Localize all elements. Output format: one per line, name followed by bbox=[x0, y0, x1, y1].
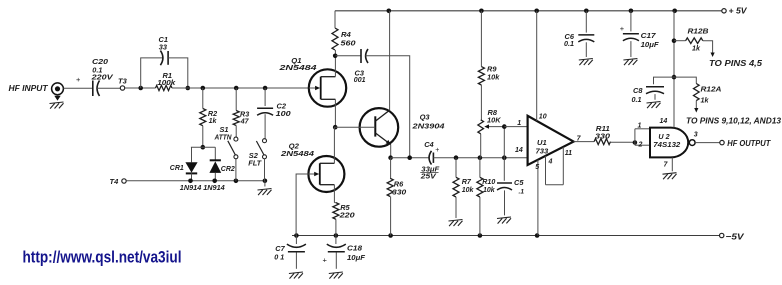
wire U1 pin11 bbox=[562, 147, 564, 185]
wire CR2 anode lead bbox=[214, 173, 216, 181]
svg-text:10k: 10k bbox=[487, 72, 500, 81]
wire U1 pin4 bbox=[545, 156, 547, 185]
label site url bbox=[23, 247, 182, 266]
label R2 bbox=[208, 109, 217, 118]
svg-text:14: 14 bbox=[660, 118, 668, 125]
label R4 bbox=[341, 30, 352, 39]
wire R10 bottom lead bbox=[479, 197, 481, 236]
connector J1 HF input bbox=[52, 83, 64, 95]
wire C4 to U1 pin14 bbox=[433, 157, 527, 159]
gate U2 74S132 bbox=[650, 128, 688, 158]
node C5 tap bbox=[502, 155, 507, 160]
node CR2 bottom bbox=[212, 179, 217, 184]
wire C3 right to C4 node bbox=[366, 56, 410, 158]
label C5 value bbox=[519, 188, 525, 195]
capacitor C7 bbox=[287, 244, 306, 252]
node R1 right junction bbox=[186, 86, 191, 91]
svg-text:733: 733 bbox=[536, 147, 549, 156]
label C18 value bbox=[347, 253, 365, 262]
node bottom rail junction bbox=[535, 233, 540, 238]
label C6 bbox=[565, 32, 575, 41]
label C8 bbox=[633, 86, 643, 95]
capacitor C18 bbox=[327, 244, 346, 252]
label CR1 bbox=[170, 163, 184, 172]
svg-text:0.1: 0.1 bbox=[632, 95, 642, 104]
label S1 bbox=[220, 125, 229, 134]
wire C7 bottom lead bbox=[295, 252, 297, 268]
resistor R9 bbox=[478, 67, 484, 85]
svg-text:HF OUTPUT: HF OUTPUT bbox=[727, 139, 771, 148]
ground C18 bbox=[329, 272, 343, 279]
label Q2 type bbox=[280, 149, 315, 158]
node S2 ground corner bbox=[263, 179, 268, 184]
wire C8 branch bbox=[654, 77, 675, 84]
svg-text:C5: C5 bbox=[514, 178, 524, 187]
svg-text:10k: 10k bbox=[462, 187, 475, 194]
label U1 type bbox=[536, 147, 549, 156]
svg-text:0 1: 0 1 bbox=[274, 253, 284, 262]
ground R7 bbox=[449, 220, 463, 227]
wire R8 bottom lead bbox=[480, 134, 482, 158]
node top rail junction bbox=[672, 9, 677, 14]
arrow to pins 9 10 12 13 bbox=[694, 108, 698, 113]
resistor R12B bbox=[686, 38, 703, 44]
svg-text:001: 001 bbox=[354, 77, 366, 84]
label R11 bbox=[596, 124, 610, 133]
svg-text:C18: C18 bbox=[347, 244, 363, 253]
node C3 bottom junction bbox=[407, 155, 412, 160]
resistor R3 bbox=[233, 111, 239, 126]
label TO PINS 9 10 12 AND13 bbox=[686, 117, 782, 126]
svg-text:74S132: 74S132 bbox=[653, 142, 680, 149]
wire C2 to S2 bbox=[264, 114, 266, 139]
node R8-R10 tap bbox=[478, 155, 483, 160]
label C4 value 25V bbox=[420, 172, 438, 181]
label R1 bbox=[163, 71, 172, 80]
svg-text:FLT: FLT bbox=[248, 159, 262, 168]
wire U1 pin10 bbox=[536, 11, 538, 121]
label R9 bbox=[487, 65, 497, 74]
wire C2 top lead bbox=[264, 88, 266, 106]
node input line at C1 branch bbox=[138, 86, 143, 91]
svg-text:+: + bbox=[323, 255, 328, 264]
capacitor C6 bbox=[578, 35, 594, 42]
svg-text:10μF: 10μF bbox=[347, 253, 365, 262]
capacitor C1 bbox=[160, 51, 168, 66]
wire R12A lead bbox=[674, 77, 696, 83]
node bottom rail junction bbox=[294, 233, 299, 238]
node top rail junction bbox=[387, 9, 392, 14]
switch S1 bbox=[228, 137, 238, 159]
node U2 input junction bbox=[633, 140, 638, 145]
node R12B branch bbox=[672, 38, 677, 43]
label U1 pin7 bbox=[577, 135, 582, 142]
wire CR1 anode lead bbox=[191, 147, 193, 162]
label U1 pin5 bbox=[535, 164, 539, 171]
capacitor C8 bbox=[646, 87, 664, 94]
wire C17 bottom lead bbox=[630, 41, 632, 57]
bubble U2 output bbox=[689, 140, 695, 146]
label R8 bbox=[488, 108, 498, 117]
svg-text:4: 4 bbox=[548, 159, 553, 166]
capacitor C5 bbox=[497, 183, 512, 190]
wire common line to ground bbox=[264, 181, 266, 187]
svg-text:2: 2 bbox=[638, 142, 643, 149]
svg-text:10k: 10k bbox=[483, 187, 496, 194]
label R3 bbox=[240, 110, 249, 119]
wire U2 pin1 stub bbox=[635, 128, 650, 130]
resistor R6 bbox=[387, 178, 393, 196]
resistor R8 pot bbox=[478, 120, 484, 134]
svg-text:560: 560 bbox=[341, 38, 357, 47]
label R3 value bbox=[240, 118, 250, 125]
svg-text:C8: C8 bbox=[633, 86, 643, 95]
node CR1 bottom bbox=[188, 179, 193, 184]
ground input connector bbox=[50, 102, 64, 109]
ground C7 bbox=[289, 272, 303, 279]
capacitor C20 bbox=[93, 81, 100, 97]
svg-text:HF INPUT: HF INPUT bbox=[9, 84, 49, 93]
label C2 bbox=[277, 101, 287, 110]
terminal T4 bbox=[122, 179, 126, 183]
label U1 pin4 bbox=[548, 159, 553, 166]
wire U2 pin2 stub bbox=[635, 144, 650, 146]
node top rail junction bbox=[534, 9, 539, 14]
wire emitter to C4 bbox=[391, 157, 429, 159]
label C3 bbox=[355, 69, 365, 78]
wire R2 top lead bbox=[202, 88, 204, 109]
node top rail junction bbox=[479, 9, 484, 14]
capacitor C17 bbox=[623, 34, 639, 41]
svg-text:5: 5 bbox=[535, 164, 539, 171]
wire C6 bottom lead bbox=[585, 42, 587, 57]
node top rail junction bbox=[584, 9, 589, 14]
resistor R5 bbox=[333, 203, 339, 220]
label R10 value bbox=[483, 187, 496, 194]
node R2 tap bbox=[201, 86, 206, 91]
label C8 value bbox=[632, 95, 642, 104]
wire R11 to U2 bbox=[611, 141, 635, 143]
label U2 pin2 bbox=[638, 142, 643, 149]
label U1 pin10 bbox=[539, 114, 547, 121]
svg-text:C7: C7 bbox=[275, 244, 285, 253]
ground C17 bbox=[623, 59, 637, 66]
wire C6 top lead bbox=[585, 11, 587, 33]
transistor Q3 2N3904 bbox=[335, 108, 398, 147]
diode CR2 bbox=[209, 160, 221, 173]
wire C18 bottom lead bbox=[335, 252, 337, 268]
terminal HF output bbox=[720, 140, 724, 144]
label U2 pin1 bbox=[638, 122, 642, 129]
wire R9 to R8 bbox=[480, 85, 482, 120]
wire S1 bottom lead bbox=[235, 159, 237, 181]
svg-text:330: 330 bbox=[392, 188, 407, 197]
label T4 bbox=[110, 177, 120, 186]
wire U1 pin7 output bbox=[574, 141, 595, 143]
label 1N914 left bbox=[180, 183, 202, 192]
capacitor C2 bbox=[257, 108, 273, 115]
wire C1 branch left bbox=[141, 58, 164, 88]
label R4 value bbox=[341, 38, 357, 47]
label +5V bbox=[729, 6, 748, 16]
svg-text:0.1: 0.1 bbox=[564, 39, 574, 48]
svg-text:Q3: Q3 bbox=[420, 113, 431, 122]
node bottom rail junction bbox=[478, 233, 483, 238]
label R1 value bbox=[157, 78, 176, 87]
node wiper junction bbox=[502, 124, 507, 129]
wire U2 output bbox=[695, 142, 720, 144]
capacitor C4 bbox=[429, 151, 433, 165]
label R12A value bbox=[701, 95, 710, 104]
diode CR1 bbox=[185, 162, 197, 173]
svg-text:+ 5V: + 5V bbox=[729, 6, 748, 16]
node C3 tap bbox=[333, 54, 338, 59]
wire -5V bottom rail bbox=[292, 235, 720, 237]
label C7 value bbox=[274, 253, 284, 262]
wire input to C20 bbox=[63, 87, 92, 89]
label R9 value bbox=[487, 72, 500, 81]
svg-text:C4: C4 bbox=[424, 140, 433, 149]
label R6 bbox=[394, 180, 404, 189]
label R7 value bbox=[462, 187, 475, 194]
label R12B value bbox=[692, 44, 701, 53]
wire R9 top lead bbox=[480, 11, 482, 67]
wire diode top line bbox=[191, 146, 215, 148]
label C7 bbox=[275, 244, 285, 253]
terminal -5V bbox=[720, 233, 724, 237]
wire U2 input tie bbox=[634, 129, 636, 145]
ground C5 bbox=[497, 217, 511, 224]
svg-text:CR2: CR2 bbox=[221, 164, 236, 173]
capacitor C3 bbox=[361, 49, 368, 63]
wire Q2 source to R5 bbox=[334, 185, 336, 203]
label 1N914 right bbox=[203, 183, 225, 192]
label C20 plus bbox=[76, 75, 81, 84]
wire R12B to arrow bbox=[703, 41, 713, 54]
wire T4 common line bbox=[126, 180, 265, 182]
svg-text:3: 3 bbox=[694, 132, 698, 139]
label C17 plus bbox=[620, 24, 625, 33]
svg-text:U 2: U 2 bbox=[658, 132, 669, 141]
ground U2 pin7 bbox=[663, 173, 677, 180]
wire R3 top lead bbox=[235, 88, 237, 111]
wire CR1 cathode lead bbox=[191, 173, 193, 180]
wire C8 bottom lead bbox=[654, 94, 656, 100]
svg-text:R12A: R12A bbox=[701, 85, 722, 94]
svg-text:.1: .1 bbox=[519, 188, 525, 195]
label C3 value bbox=[354, 77, 366, 84]
node bottom rail junction bbox=[334, 233, 339, 238]
label C4 value underline bbox=[420, 172, 438, 174]
wire R7 bottom lead bbox=[455, 197, 457, 218]
label U1 bbox=[537, 138, 547, 147]
svg-text:1N914: 1N914 bbox=[180, 183, 202, 192]
svg-text:330: 330 bbox=[595, 132, 611, 141]
node Q1 source junction bbox=[333, 125, 338, 130]
wire pin4-pin11 strap bbox=[546, 184, 564, 186]
label C17 bbox=[641, 31, 657, 40]
wire C5 top lead bbox=[503, 127, 505, 181]
wire R10 top lead bbox=[479, 158, 481, 178]
label C4 bbox=[424, 140, 433, 149]
svg-text:10K: 10K bbox=[487, 115, 501, 124]
svg-text:33: 33 bbox=[159, 42, 168, 51]
resistor R2 bbox=[200, 109, 206, 126]
wire U2 pin7 bbox=[671, 157, 673, 171]
wire wiper to U1 pin1 bbox=[504, 126, 527, 128]
terminal +5V bbox=[722, 9, 726, 13]
wire Q1 drain to R4 bbox=[334, 50, 336, 77]
svg-text:ATTN: ATTN bbox=[214, 133, 232, 142]
label R12A bbox=[701, 85, 722, 94]
label -5V bbox=[726, 232, 745, 242]
svg-text:1k: 1k bbox=[692, 44, 701, 53]
label U1 pin14 bbox=[515, 147, 523, 154]
svg-text:2N3904: 2N3904 bbox=[411, 121, 445, 130]
svg-text:TO PINS 4,5: TO PINS 4,5 bbox=[709, 59, 763, 68]
label C1 bbox=[159, 35, 168, 44]
svg-text:T4: T4 bbox=[110, 177, 120, 186]
svg-text:2N5484: 2N5484 bbox=[278, 63, 317, 72]
node R3 tap bbox=[234, 86, 239, 91]
svg-text:25V: 25V bbox=[420, 172, 438, 181]
label C6 value bbox=[564, 39, 574, 48]
label R12B bbox=[688, 26, 710, 35]
label U2 bbox=[658, 132, 669, 141]
resistor R4 bbox=[332, 28, 338, 50]
label R7 bbox=[462, 177, 472, 186]
svg-text:220V: 220V bbox=[90, 72, 114, 81]
wire Q1 source bbox=[334, 99, 336, 127]
resistor R11 bbox=[594, 139, 610, 145]
label C4 plus bbox=[435, 147, 439, 154]
label Q1 bbox=[291, 56, 301, 65]
node S1 bottom bbox=[234, 179, 239, 184]
svg-text:10μF: 10μF bbox=[641, 40, 659, 49]
wire +5V top rail bbox=[335, 10, 722, 12]
label C17 value bbox=[641, 40, 659, 49]
label T3 bbox=[118, 76, 128, 85]
svg-text:100: 100 bbox=[276, 109, 292, 118]
label C18 bbox=[347, 244, 363, 253]
svg-text:11: 11 bbox=[565, 150, 572, 157]
wire C3 left lead bbox=[335, 55, 361, 57]
svg-text:TO PINS 9,10,12, AND13: TO PINS 9,10,12, AND13 bbox=[686, 117, 782, 126]
node R7 tap bbox=[454, 155, 459, 160]
svg-text:1k: 1k bbox=[209, 118, 218, 125]
wire R12A to arrow bbox=[695, 101, 697, 109]
node C2 tap bbox=[263, 86, 268, 91]
switch S2 bbox=[256, 139, 266, 159]
wire R5 bottom lead bbox=[335, 219, 337, 235]
label HF INPUT bbox=[9, 84, 49, 93]
ground C6 bbox=[579, 59, 593, 66]
node C8 branch bbox=[672, 75, 677, 80]
wire main line R1 to Q1 gate bbox=[172, 87, 309, 89]
label R5 bbox=[340, 203, 350, 212]
label U1 pin11 bbox=[565, 150, 572, 157]
svg-text:+: + bbox=[435, 147, 439, 154]
wire T3 to R1 bbox=[125, 87, 156, 89]
svg-text:R12B: R12B bbox=[688, 26, 710, 35]
svg-text:R3: R3 bbox=[240, 110, 249, 119]
svg-text:1k: 1k bbox=[701, 95, 710, 104]
wire R6 top lead bbox=[390, 158, 392, 179]
label C20 bbox=[92, 57, 109, 66]
label S2 bbox=[249, 151, 259, 160]
label S2 FLT bbox=[248, 159, 262, 168]
wire U2 pin14 power bbox=[673, 11, 675, 128]
wire U1 pin5 bbox=[537, 160, 539, 236]
label Q3 type bbox=[411, 121, 445, 130]
svg-text:1: 1 bbox=[517, 120, 521, 127]
label R11 value bbox=[595, 132, 611, 141]
wire C1 branch right bbox=[168, 58, 188, 88]
label R6 value bbox=[392, 188, 407, 197]
wire Q3 collector to rail bbox=[389, 11, 391, 110]
svg-text:47: 47 bbox=[240, 118, 250, 125]
transistor Q2 2N5484 bbox=[308, 156, 344, 192]
wire R12B lead bbox=[674, 40, 686, 42]
label Q1 type bbox=[278, 63, 317, 72]
wire Q2 gate bbox=[296, 174, 309, 236]
label HF OUTPUT bbox=[727, 139, 771, 148]
label Q3 bbox=[420, 113, 431, 122]
svg-text:−5V: −5V bbox=[726, 232, 745, 242]
wire C5 bottom lead bbox=[504, 190, 506, 215]
label U2 type bbox=[653, 142, 680, 149]
wire S2 bottom lead bbox=[264, 159, 266, 181]
svg-text:+: + bbox=[76, 75, 81, 84]
node emitter junction bbox=[388, 155, 393, 160]
label C18 plus bbox=[323, 255, 328, 264]
svg-text:T3: T3 bbox=[118, 76, 128, 85]
node bottom rail junction bbox=[388, 233, 393, 238]
wire connector shield stem bbox=[54, 95, 60, 101]
label C5 bbox=[514, 178, 524, 187]
label U2 pin3 bbox=[694, 132, 698, 139]
svg-text:10: 10 bbox=[539, 114, 547, 121]
label C20 value 220V bbox=[90, 72, 114, 81]
wire R2 bottom lead bbox=[202, 126, 204, 148]
wire R8 wiper bbox=[484, 124, 504, 128]
resistor R1 bbox=[156, 85, 173, 90]
label C20 value 0.1 bbox=[92, 66, 102, 75]
svg-text:1N914: 1N914 bbox=[203, 183, 225, 192]
svg-text:CR1: CR1 bbox=[170, 163, 184, 172]
wire C7 top lead bbox=[295, 236, 297, 245]
svg-text:2N5484: 2N5484 bbox=[280, 149, 315, 158]
label R10 bbox=[482, 177, 495, 186]
op-amp U1 733 bbox=[528, 116, 574, 165]
label U2 pin14 bbox=[660, 118, 668, 125]
label U1 pin1 bbox=[517, 120, 521, 127]
label R2 value bbox=[209, 118, 218, 125]
ground C8 bbox=[647, 102, 661, 109]
label CR2 bbox=[221, 164, 236, 173]
svg-text:C17: C17 bbox=[641, 31, 657, 40]
label Q2 bbox=[289, 141, 300, 150]
wire R6 bottom lead bbox=[390, 197, 392, 236]
svg-text:+: + bbox=[620, 24, 625, 33]
resistor R7 bbox=[453, 177, 459, 197]
resistor R10 bbox=[477, 177, 483, 197]
svg-text:100k: 100k bbox=[157, 78, 176, 87]
label R5 value bbox=[338, 211, 355, 220]
svg-text:R7: R7 bbox=[462, 177, 472, 186]
label TO PINS 4,5 bbox=[709, 59, 763, 68]
label C1 value bbox=[159, 42, 168, 51]
